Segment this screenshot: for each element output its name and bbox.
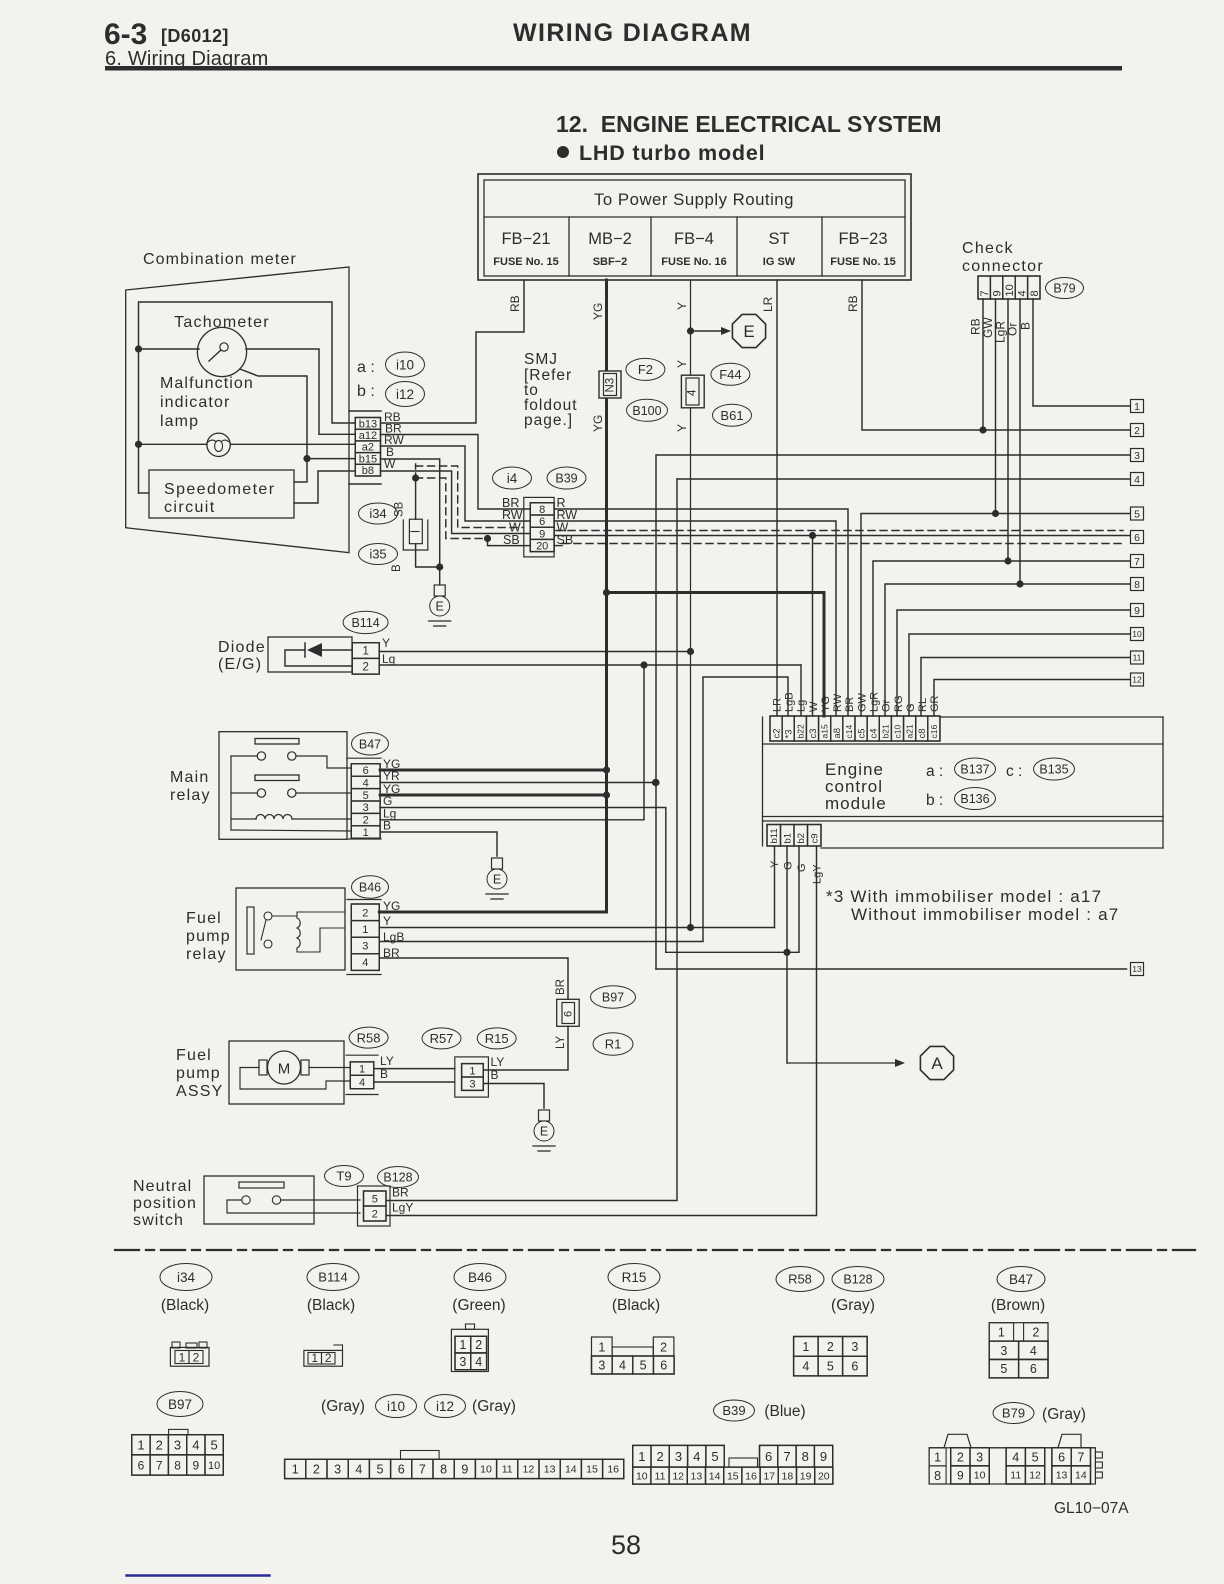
svg-text:11: 11 xyxy=(502,1464,513,1476)
svg-text:14: 14 xyxy=(565,1464,577,1476)
wire RB check connector pin 7 xyxy=(969,299,984,430)
node 10 box and wire G from ECM a21 xyxy=(909,628,1144,717)
connector face i34 xyxy=(170,1342,209,1366)
connector oval B39 xyxy=(547,467,586,489)
svg-text:1: 1 xyxy=(137,1437,144,1452)
svg-text:SMJ: SMJ xyxy=(524,351,558,368)
wire W from SMJ pin 9 to node 6 with branch to ECM c3 xyxy=(554,532,1130,716)
svg-text:F44: F44 xyxy=(719,367,741,382)
connector oval i4 xyxy=(493,467,532,489)
svg-text:a8: a8 xyxy=(832,728,843,739)
wire B R58 to R15 xyxy=(374,1081,455,1083)
svg-text:B46: B46 xyxy=(468,1270,492,1285)
svg-text:4: 4 xyxy=(362,957,368,969)
svg-text:8: 8 xyxy=(934,1469,941,1483)
connector oval R15 xyxy=(477,1028,516,1049)
svg-text:connector: connector xyxy=(962,258,1044,275)
svg-text:c5: c5 xyxy=(856,728,867,738)
svg-text:6: 6 xyxy=(138,1458,145,1472)
svg-text:b1: b1 xyxy=(783,833,794,844)
svg-text:BR: BR xyxy=(844,697,856,712)
connector oval B100 xyxy=(627,399,668,421)
fuel pump resistor unit pin 6 xyxy=(555,979,579,1049)
connector oval R57 xyxy=(422,1028,461,1049)
svg-text:LR: LR xyxy=(771,698,783,712)
svg-text:7: 7 xyxy=(1134,556,1140,568)
wire G ECM b1 to accelerator node A xyxy=(783,846,905,1067)
svg-text:[D6012]: [D6012] xyxy=(161,26,229,46)
wire RB from FB-21 fuse down to combination meter b13 xyxy=(381,280,524,423)
connector detail B97 xyxy=(157,1392,203,1417)
pin labels left BR RW W SB xyxy=(502,496,523,547)
svg-text:Y: Y xyxy=(382,636,390,650)
wire BR from a12 to SMJ i4 pin 8 xyxy=(381,435,531,510)
svg-text:2: 2 xyxy=(475,1338,482,1352)
svg-text:a12: a12 xyxy=(359,430,377,442)
svg-text:circuit: circuit xyxy=(164,499,216,516)
svg-text:B100: B100 xyxy=(632,404,661,418)
svg-text:switch: switch xyxy=(133,1212,184,1229)
pin labels right R RW W SB xyxy=(557,496,578,547)
svg-text:4: 4 xyxy=(1016,290,1028,296)
svg-text:c4: c4 xyxy=(869,728,880,738)
svg-text:b21: b21 xyxy=(880,724,890,738)
wire BR neutral switch to node 4 riser xyxy=(386,479,677,1201)
svg-text:2: 2 xyxy=(313,1462,320,1476)
svg-text:4: 4 xyxy=(693,1449,700,1464)
svg-text:IG SW: IG SW xyxy=(763,256,796,268)
svg-text:6: 6 xyxy=(660,1359,667,1373)
svg-text:15: 15 xyxy=(586,1464,598,1476)
connector oval F44 xyxy=(711,363,750,385)
svg-text:3: 3 xyxy=(459,1355,466,1369)
svg-text:Neutral: Neutral xyxy=(133,1178,192,1195)
connector oval R58 xyxy=(349,1027,388,1048)
svg-text:b :: b : xyxy=(357,383,375,400)
svg-text:R57: R57 xyxy=(430,1031,454,1046)
svg-text:To Power Supply Routing: To Power Supply Routing xyxy=(594,190,794,209)
svg-text:pump: pump xyxy=(186,928,231,945)
svg-text:9: 9 xyxy=(461,1462,468,1476)
svg-text:1: 1 xyxy=(292,1462,299,1476)
wire Y from diode pin 1 to FB-4 Y line xyxy=(379,636,694,655)
combination meter outline xyxy=(126,251,349,553)
svg-text:1: 1 xyxy=(638,1449,645,1464)
svg-text:3: 3 xyxy=(334,1462,341,1476)
svg-text:LY: LY xyxy=(491,1055,505,1069)
svg-text:6-3: 6-3 xyxy=(104,18,147,51)
tachometer xyxy=(139,314,270,377)
svg-text:pump: pump xyxy=(176,1065,221,1082)
svg-text:12: 12 xyxy=(523,1464,535,1476)
SMJ connector block pins 8 6 9 20 xyxy=(524,497,554,557)
svg-text:a2: a2 xyxy=(362,442,374,454)
svg-text:c3: c3 xyxy=(808,728,819,738)
svg-text:20: 20 xyxy=(818,1470,830,1482)
wire Y fuel pump relay pin 1 to ECM b11 xyxy=(379,846,774,931)
node 11 box and wire RL from ECM c8 xyxy=(921,651,1144,716)
svg-text:B39: B39 xyxy=(555,472,577,486)
wire LY R58 to R15 xyxy=(374,1068,455,1070)
check connector label xyxy=(962,240,1044,275)
svg-text:5: 5 xyxy=(372,1193,378,1205)
svg-text:1: 1 xyxy=(802,1340,809,1354)
svg-text:GW: GW xyxy=(856,692,868,712)
connector face B114 xyxy=(304,1345,343,1366)
chassis ground below speed sensor xyxy=(429,585,451,626)
svg-text:19: 19 xyxy=(800,1470,812,1482)
svg-text:c10: c10 xyxy=(893,725,903,739)
svg-text:c8: c8 xyxy=(917,728,928,738)
svg-text:3: 3 xyxy=(675,1449,682,1464)
svg-text:Or: Or xyxy=(881,699,893,712)
body ground symbol E with arrow from Y line xyxy=(687,314,766,347)
diode (E/G) component xyxy=(218,637,352,673)
svg-text:15: 15 xyxy=(727,1470,739,1482)
connector reference b : i12 xyxy=(357,382,425,407)
wire RW from a2 to SMJ i4 pin 6 xyxy=(381,446,531,521)
power supply routing block To Power Supply Routing xyxy=(478,174,911,280)
svg-text:(Black): (Black) xyxy=(612,1297,660,1314)
chassis ground below main relay xyxy=(486,858,508,899)
svg-text:7: 7 xyxy=(783,1449,790,1464)
svg-text:8: 8 xyxy=(1029,290,1041,296)
connector oval i34 xyxy=(359,503,398,524)
svg-text:3: 3 xyxy=(598,1359,605,1373)
connector detail R15 (Black) xyxy=(608,1264,660,1315)
svg-text:9: 9 xyxy=(193,1458,200,1472)
svg-text:17: 17 xyxy=(763,1470,775,1482)
svg-text:RW: RW xyxy=(832,693,844,712)
svg-text:BR: BR xyxy=(555,979,567,995)
svg-text:(Black): (Black) xyxy=(307,1297,355,1314)
svg-text:G: G xyxy=(905,703,917,712)
svg-text:2: 2 xyxy=(325,1351,332,1365)
svg-text:13: 13 xyxy=(1132,964,1142,974)
connector oval B79 xyxy=(1046,278,1084,299)
svg-text:14: 14 xyxy=(709,1470,721,1482)
connector oval B97 xyxy=(591,986,636,1009)
svg-text:4: 4 xyxy=(355,1462,362,1476)
svg-text:E: E xyxy=(743,322,754,341)
svg-text:4: 4 xyxy=(1030,1344,1037,1358)
svg-text:FB−4: FB−4 xyxy=(674,230,714,248)
svg-text:(Gray): (Gray) xyxy=(321,1398,365,1415)
immobiliser note xyxy=(826,887,1119,924)
svg-text:Y: Y xyxy=(675,360,689,368)
svg-text:G: G xyxy=(783,861,795,870)
svg-text:3: 3 xyxy=(363,802,369,814)
svg-text:Or: Or xyxy=(1006,323,1020,336)
svg-text:LgY: LgY xyxy=(392,1201,413,1215)
figure number GL10-07A xyxy=(1054,1500,1129,1517)
svg-text:i12: i12 xyxy=(436,1399,454,1414)
svg-text:6: 6 xyxy=(539,516,545,528)
connector detail B79 (Gray) xyxy=(993,1403,1086,1424)
svg-text:7: 7 xyxy=(156,1458,163,1472)
svg-text:c2: c2 xyxy=(771,728,782,738)
svg-text:page.]: page.] xyxy=(524,412,573,429)
wire LgY neutral switch to ECM c9 xyxy=(386,846,817,1216)
connector oval R1 xyxy=(593,1033,633,1056)
engine control module outline xyxy=(763,717,1164,848)
connector oval B114 xyxy=(343,611,388,633)
svg-text:A: A xyxy=(931,1054,943,1073)
svg-text:6: 6 xyxy=(765,1449,772,1464)
svg-text:3: 3 xyxy=(174,1437,181,1452)
svg-text:i4: i4 xyxy=(507,471,518,486)
svg-text:1: 1 xyxy=(469,1065,475,1077)
svg-text:5: 5 xyxy=(377,1462,384,1476)
svg-text:M: M xyxy=(278,1061,291,1078)
svg-text:i35: i35 xyxy=(369,547,386,562)
svg-text:(Black): (Black) xyxy=(161,1297,209,1314)
svg-text:LgY: LgY xyxy=(812,864,824,884)
ECM lower connector row b11 b1 b2 c9 xyxy=(767,825,821,847)
svg-text:9: 9 xyxy=(1134,605,1140,617)
wire colour labels YG YR YG G Lg B xyxy=(383,757,400,833)
svg-text:10: 10 xyxy=(208,1460,220,1472)
svg-text:(Blue): (Blue) xyxy=(764,1403,805,1420)
connector oval i35 xyxy=(359,544,398,565)
wire colour labels YG Y LgB BR xyxy=(383,899,404,960)
node 1 box xyxy=(1131,400,1144,413)
wire YG main relay pin 6 (thick) xyxy=(380,766,610,773)
svg-text:B137: B137 xyxy=(960,763,989,777)
svg-text:ST: ST xyxy=(768,230,789,248)
svg-text:2: 2 xyxy=(1134,425,1140,437)
svg-text:(Gray): (Gray) xyxy=(1042,1406,1086,1423)
svg-text:B61: B61 xyxy=(720,408,743,423)
svg-text:1: 1 xyxy=(598,1341,605,1355)
combination meter connector block b13 a12 a2 b15 b8 xyxy=(349,411,381,484)
svg-text:5: 5 xyxy=(363,790,369,802)
svg-text:Lg: Lg xyxy=(796,700,808,712)
svg-text:FUSE No. 15: FUSE No. 15 xyxy=(830,256,895,268)
svg-text:2: 2 xyxy=(827,1340,834,1354)
svg-text:(Green): (Green) xyxy=(452,1297,505,1314)
check connector B79 pin block 7 9 10 4 8 xyxy=(978,276,1041,299)
svg-text:2: 2 xyxy=(362,907,368,919)
wire LY resistor down to fuel pump connector xyxy=(483,1026,568,1070)
svg-text:2: 2 xyxy=(657,1449,664,1464)
svg-text:10: 10 xyxy=(636,1470,648,1482)
svg-text:10: 10 xyxy=(1132,629,1142,639)
svg-text:B79: B79 xyxy=(1002,1406,1025,1421)
fuel pump relay connector block 2 1 3 4 xyxy=(347,900,381,975)
svg-text:14: 14 xyxy=(1075,1470,1087,1482)
svg-text:W: W xyxy=(808,701,820,712)
svg-text:6: 6 xyxy=(363,765,369,777)
footer blue mark xyxy=(127,1574,270,1576)
svg-text:R58: R58 xyxy=(357,1030,381,1045)
svg-text:GR: GR xyxy=(929,695,941,712)
connector reference a : i10 xyxy=(357,352,425,377)
svg-text:58: 58 xyxy=(611,1530,641,1560)
svg-text:5: 5 xyxy=(640,1359,647,1373)
svg-text:i10: i10 xyxy=(387,1399,405,1414)
fuel pump relay internal contacts and coil xyxy=(247,907,345,954)
wire G ECM b2 joining main relay G line xyxy=(666,846,799,952)
svg-text:8: 8 xyxy=(802,1449,809,1464)
svg-text:4: 4 xyxy=(475,1355,482,1369)
svg-text:2: 2 xyxy=(156,1437,163,1452)
svg-text:B135: B135 xyxy=(1039,763,1068,777)
svg-text:RB: RB xyxy=(508,295,522,312)
speedometer circuit box xyxy=(149,470,294,518)
dashed optional wire upper run to node 6 xyxy=(416,466,1123,531)
svg-text:2: 2 xyxy=(372,1208,378,1220)
wire Or check connector pin 4 xyxy=(1006,299,1021,584)
svg-text:b15: b15 xyxy=(359,453,377,465)
wire B from b15 to ground xyxy=(381,459,444,585)
svg-text:*3: *3 xyxy=(784,730,795,739)
svg-text:a :: a : xyxy=(357,359,375,376)
connector oval B46 xyxy=(352,876,389,898)
svg-text:1: 1 xyxy=(1134,401,1140,413)
svg-text:B: B xyxy=(491,1068,499,1082)
wire GW check connector pin 9 xyxy=(981,299,996,514)
svg-text:1: 1 xyxy=(359,1064,365,1076)
svg-text:4: 4 xyxy=(687,389,699,396)
svg-text:LY: LY xyxy=(380,1054,394,1068)
SMJ note text xyxy=(524,351,578,429)
svg-text:9: 9 xyxy=(992,290,1004,296)
neutral switch connector block 5 2 xyxy=(358,1186,391,1226)
svg-text:Diode: Diode xyxy=(218,639,266,656)
svg-text:6: 6 xyxy=(1134,532,1140,544)
svg-text:1: 1 xyxy=(179,1351,186,1365)
svg-text:11: 11 xyxy=(1133,653,1142,663)
node 4 box and wire xyxy=(677,473,1144,486)
svg-text:module: module xyxy=(825,794,887,813)
wire YG from MB-2 main power (thick) down to relays xyxy=(591,280,607,912)
svg-text:LHD turbo model: LHD turbo model xyxy=(579,141,765,165)
node 6 box xyxy=(1131,531,1144,544)
svg-text:Fuel: Fuel xyxy=(176,1047,212,1064)
svg-text:6: 6 xyxy=(563,1011,575,1017)
svg-text:R15: R15 xyxy=(622,1270,647,1285)
svg-text:FB−21: FB−21 xyxy=(501,230,550,248)
svg-text:b22: b22 xyxy=(795,724,805,738)
svg-text:2: 2 xyxy=(193,1351,200,1365)
svg-text:*3 With immobiliser model : a1: *3 With immobiliser model : a17 xyxy=(826,887,1102,906)
svg-text:1: 1 xyxy=(934,1451,941,1465)
svg-text:YG: YG xyxy=(591,415,605,432)
svg-text:16: 16 xyxy=(745,1470,757,1482)
svg-text:LY: LY xyxy=(555,1035,567,1049)
body harness connector block 1 3 xyxy=(455,1057,489,1097)
svg-text:7: 7 xyxy=(1077,1450,1084,1464)
svg-text:SBF−2: SBF−2 xyxy=(593,256,628,268)
connector oval B47 xyxy=(352,733,389,755)
svg-text:(Gray): (Gray) xyxy=(831,1297,875,1314)
connector detail B47 (Brown) xyxy=(991,1267,1045,1315)
node junction dots on meter supply bus xyxy=(135,345,142,448)
wire YG main relay pin 5 (thick) xyxy=(380,791,610,798)
connector face R58 B128 xyxy=(794,1337,868,1376)
fuel pump ASSY box xyxy=(176,1041,344,1104)
node 7 box and wire LgR from ECM c4 xyxy=(873,555,1144,717)
svg-text:9: 9 xyxy=(820,1449,827,1464)
svg-text:Combination meter: Combination meter xyxy=(143,251,297,268)
svg-text:B47: B47 xyxy=(359,737,381,751)
connector face B97 xyxy=(132,1429,224,1475)
header rule xyxy=(105,66,1122,71)
connector N3 on YG line xyxy=(599,371,621,398)
svg-text:GL10−07A: GL10−07A xyxy=(1054,1500,1129,1517)
connector detail B46 (Green) xyxy=(452,1264,506,1315)
svg-text:G: G xyxy=(796,863,808,872)
svg-text:6: 6 xyxy=(398,1462,405,1476)
svg-text:B46: B46 xyxy=(359,881,381,895)
svg-text:1: 1 xyxy=(363,827,369,839)
svg-text:1: 1 xyxy=(459,1338,466,1352)
main relay connector block 6 4 5 3 2 1 xyxy=(347,758,381,839)
svg-text:c9: c9 xyxy=(810,833,821,843)
neutral position switch box xyxy=(133,1176,314,1229)
node 2 box xyxy=(1131,424,1144,437)
svg-text:lamp: lamp xyxy=(160,413,199,430)
svg-text:LR: LR xyxy=(761,296,775,312)
connector face i10 i12 16 pin strip xyxy=(285,1451,624,1479)
wire B main relay pin 1 to ground xyxy=(380,832,497,856)
svg-text:2: 2 xyxy=(1032,1326,1039,1340)
wire SB from sensor up to dashed junction xyxy=(412,464,419,519)
wire YG junction to ECM a15 (thick) xyxy=(603,589,824,716)
svg-text:indicator: indicator xyxy=(160,394,230,411)
svg-text:18: 18 xyxy=(782,1470,794,1482)
section separator dash-dot line xyxy=(115,1249,1195,1251)
svg-text:2: 2 xyxy=(957,1450,964,1464)
svg-text:B: B xyxy=(383,819,391,833)
svg-text:B: B xyxy=(1019,322,1033,330)
svg-text:10: 10 xyxy=(1004,284,1016,296)
wire Lg from diode pin 2 to ECM b22 and main relay xyxy=(379,652,801,820)
wire colour labels BR LgY xyxy=(392,1186,413,1215)
ECM name and connector references xyxy=(825,758,1075,813)
svg-text:16: 16 xyxy=(607,1464,619,1476)
page header title WIRING DIAGRAM xyxy=(513,19,752,47)
wire W from b8 to SMJ i4 pin 9 xyxy=(381,471,531,534)
svg-text:8: 8 xyxy=(539,504,545,516)
wire RB from FB-23 to node 2 xyxy=(846,280,1131,430)
wire LgR check connector pin 10 xyxy=(994,299,1009,561)
svg-text:Y: Y xyxy=(769,860,781,868)
svg-text:3: 3 xyxy=(469,1079,475,1091)
combination meter internal supply bus wire xyxy=(139,302,356,493)
svg-text:12: 12 xyxy=(1029,1470,1041,1482)
svg-text:LgR: LgR xyxy=(869,692,881,712)
node 8 box and wire Or from ECM b21 xyxy=(885,578,1144,717)
svg-text:4: 4 xyxy=(192,1437,199,1452)
svg-text:1: 1 xyxy=(311,1351,318,1365)
svg-text:LgB: LgB xyxy=(784,692,796,712)
fuel pump motor xyxy=(240,1051,351,1089)
svg-text:B39: B39 xyxy=(722,1403,745,1418)
svg-text:(Brown): (Brown) xyxy=(991,1297,1045,1314)
malfunction indicator lamp xyxy=(139,375,254,456)
wire LgB fuel pump relay pin 3 to ECM *3 xyxy=(379,677,788,942)
svg-text:7: 7 xyxy=(419,1462,426,1476)
svg-text:2: 2 xyxy=(363,815,369,827)
svg-text:Y: Y xyxy=(675,424,689,432)
connector oval T9 xyxy=(325,1166,364,1187)
svg-text:FB−23: FB−23 xyxy=(838,230,887,248)
svg-text:(E/G): (E/G) xyxy=(218,656,262,673)
svg-text:a15: a15 xyxy=(820,724,830,738)
svg-text:6: 6 xyxy=(1030,1362,1037,1376)
